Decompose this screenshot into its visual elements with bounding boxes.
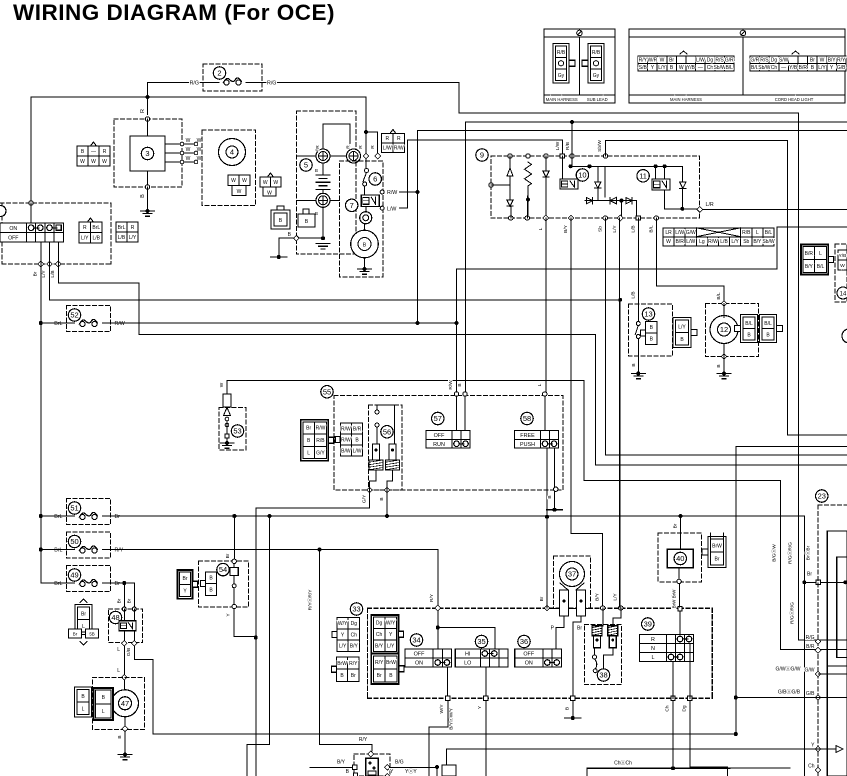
svg-text:39: 39	[644, 620, 652, 629]
svg-text:57: 57	[434, 414, 442, 423]
svg-text:W: W	[666, 239, 671, 245]
svg-text:6: 6	[373, 175, 377, 184]
svg-text:L/B: L/B	[631, 291, 637, 298]
svg-text:W: W	[820, 58, 825, 64]
svg-text:Br: Br	[810, 58, 815, 64]
svg-text:G/Y: G/Y	[362, 494, 368, 503]
svg-text:52: 52	[70, 311, 78, 320]
svg-text:Dg: Dg	[351, 621, 358, 627]
svg-text:B/L: B/L	[745, 321, 753, 327]
svg-text:W: W	[102, 159, 107, 165]
svg-text:L/B: L/B	[720, 239, 728, 245]
svg-text:W/Y: W/Y	[338, 621, 348, 627]
svg-text:ON: ON	[415, 661, 423, 667]
svg-text:PUSH: PUSH	[520, 442, 535, 448]
svg-text:MAIN HARNESS: MAIN HARNESS	[670, 97, 702, 102]
svg-text:B: B	[117, 735, 123, 738]
svg-text:R: R	[103, 149, 107, 155]
svg-text:L/B: L/B	[50, 270, 56, 277]
svg-text:L/Y: L/Y	[818, 65, 826, 71]
svg-text:56: 56	[383, 427, 391, 436]
svg-text:B: B	[305, 219, 309, 225]
svg-text:10: 10	[578, 171, 586, 180]
svg-text:B/YⓧW/Y: B/YⓧW/Y	[448, 707, 455, 729]
svg-text:R/W: R/W	[115, 321, 125, 327]
svg-text:L/W: L/W	[696, 58, 705, 64]
svg-text:50: 50	[70, 537, 78, 546]
svg-text:L/W: L/W	[353, 448, 362, 454]
svg-text:W: W	[186, 138, 191, 144]
svg-text:ON: ON	[9, 226, 17, 232]
svg-text:YⓧY: YⓧY	[405, 768, 417, 775]
svg-text:HI: HI	[465, 652, 470, 658]
svg-text:L/Y: L/Y	[731, 239, 739, 245]
svg-text:L/Y: L/Y	[678, 324, 686, 330]
svg-text:36: 36	[520, 637, 528, 646]
svg-text:Ch: Ch	[771, 65, 778, 71]
svg-text:Br: Br	[669, 58, 674, 64]
svg-text:SUB LEAD: SUB LEAD	[587, 97, 608, 102]
svg-text:B/W: B/W	[341, 448, 351, 454]
svg-text:R: R	[83, 225, 87, 231]
svg-text:Dg: Dg	[771, 58, 778, 64]
svg-text:B/Y: B/Y	[350, 644, 359, 650]
svg-text:BrL: BrL	[92, 225, 100, 231]
svg-text:B/Y: B/Y	[375, 644, 384, 650]
svg-text:W: W	[242, 178, 247, 184]
svg-text:Ch: Ch	[376, 632, 383, 638]
svg-text:Sb/W: Sb/W	[758, 65, 771, 71]
svg-text:R/W: R/W	[387, 190, 397, 196]
svg-text:Sb/W: Sb/W	[762, 239, 775, 245]
svg-text:Br: Br	[577, 626, 582, 632]
svg-text:W/R: W/R	[648, 58, 658, 64]
svg-text:L: L	[652, 655, 655, 661]
svg-text:Br: Br	[183, 576, 188, 582]
svg-text:13: 13	[644, 310, 652, 319]
svg-text:R/GⓧR/G: R/GⓧR/G	[787, 542, 794, 564]
svg-text:R/B: R/B	[592, 50, 601, 56]
svg-text:L: L	[117, 647, 120, 653]
svg-text:R: R	[358, 145, 364, 149]
svg-text:B/L: B/L	[648, 225, 654, 233]
svg-text:S/W: S/W	[779, 58, 789, 64]
svg-text:R: R	[140, 109, 146, 113]
svg-text:G/B: G/B	[837, 65, 846, 71]
svg-text:L/W: L/W	[383, 146, 392, 152]
svg-text:Br: Br	[117, 598, 123, 603]
svg-text:G/B: G/B	[126, 648, 132, 656]
svg-text:Sb: Sb	[597, 226, 603, 232]
svg-text:Gy: Gy	[558, 73, 565, 79]
svg-text:R: R	[397, 136, 401, 142]
svg-text:54: 54	[219, 565, 227, 574]
svg-text:W: W	[186, 156, 191, 162]
svg-text:L: L	[82, 706, 85, 712]
svg-text:Sb: Sb	[743, 239, 749, 245]
svg-text:L: L	[117, 668, 120, 674]
svg-text:LR: LR	[665, 230, 672, 236]
svg-text:R/G: R/G	[806, 635, 815, 641]
svg-text:Y/B: Y/B	[789, 65, 798, 71]
svg-text:BrL: BrL	[54, 581, 62, 587]
svg-text:L/Y: L/Y	[612, 225, 618, 233]
svg-text:B/G: B/G	[395, 760, 404, 766]
svg-text:14: 14	[840, 292, 847, 298]
svg-text:R/Y: R/Y	[639, 58, 648, 64]
svg-text:B/R: B/R	[799, 65, 808, 71]
svg-text:L: L	[538, 227, 544, 230]
svg-text:L: L	[307, 450, 310, 456]
svg-text:W: W	[267, 191, 272, 197]
svg-text:W: W	[263, 180, 268, 186]
svg-text:R/S: R/S	[760, 58, 769, 64]
svg-text:B/R: B/R	[675, 239, 684, 245]
svg-text:4: 4	[230, 148, 234, 157]
svg-text:B: B	[279, 218, 283, 224]
svg-text:WIRING DIAGRAM (For OCE): WIRING DIAGRAM (For OCE)	[13, 0, 335, 25]
svg-text:R/Y: R/Y	[429, 593, 435, 602]
svg-text:B/R: B/R	[353, 426, 362, 432]
svg-text:Y/B: Y/B	[838, 253, 847, 259]
svg-text:B/Y: B/Y	[805, 264, 814, 270]
svg-text:B/Y: B/Y	[828, 58, 837, 64]
svg-text:BrW BrW: BrW BrW	[672, 589, 677, 608]
svg-text:33: 33	[352, 605, 360, 614]
svg-text:Br: Br	[715, 557, 720, 563]
svg-text:Br: Br	[115, 514, 121, 520]
svg-text:W/Y: W/Y	[386, 621, 396, 627]
svg-text:L/B: L/B	[92, 236, 100, 242]
svg-text:BrW: BrW	[386, 660, 396, 666]
svg-text:Br: Br	[73, 632, 78, 637]
svg-text:G/W: G/W	[805, 668, 815, 674]
svg-text:R/Y: R/Y	[359, 737, 368, 743]
svg-text:G/WⓧG/W: G/WⓧG/W	[776, 665, 801, 672]
svg-text:Dg: Dg	[682, 705, 688, 711]
svg-text:RUN: RUN	[433, 442, 445, 448]
svg-text:Sb/W: Sb/W	[597, 140, 603, 152]
svg-text:2: 2	[217, 69, 221, 78]
svg-text:BrL: BrL	[118, 225, 126, 231]
svg-text:5B: 5B	[89, 632, 94, 637]
svg-text:49: 49	[70, 571, 78, 580]
svg-text:B: B	[631, 363, 637, 366]
svg-text:23: 23	[818, 492, 826, 501]
svg-text:R/B: R/B	[565, 142, 571, 150]
svg-text:R/Y: R/Y	[349, 661, 358, 667]
svg-text:W: W	[186, 147, 191, 153]
svg-text:BrW: BrW	[337, 661, 347, 667]
svg-text:S/B: S/B	[639, 65, 648, 71]
svg-text:Sb/W: Sb/W	[713, 65, 726, 71]
svg-text:R/Y: R/Y	[375, 660, 384, 666]
svg-text:L: L	[756, 230, 759, 236]
svg-text:BrW: BrW	[712, 544, 722, 550]
svg-text:51: 51	[70, 504, 78, 513]
svg-text:11: 11	[639, 171, 647, 180]
svg-text:BrⓧBr: BrⓧBr	[805, 545, 812, 560]
svg-text:L/Y: L/Y	[613, 593, 619, 601]
svg-text:Br: Br	[127, 598, 133, 603]
svg-text:W/Y: W/Y	[439, 704, 445, 714]
svg-text:48: 48	[111, 613, 119, 622]
svg-text:CORD HEAD LIGHT: CORD HEAD LIGHT	[775, 97, 814, 102]
svg-text:W: W	[80, 159, 85, 165]
svg-text:Dg: Dg	[376, 621, 383, 627]
svg-text:Br: Br	[351, 673, 356, 679]
svg-text:FREE: FREE	[520, 433, 535, 439]
svg-text:B: B	[547, 495, 553, 498]
svg-text:35: 35	[477, 637, 485, 646]
svg-text:L/Y: L/Y	[129, 235, 137, 241]
svg-text:W: W	[679, 65, 684, 71]
svg-text:R/G: R/G	[190, 81, 199, 87]
svg-text:R: R	[651, 637, 655, 643]
svg-text:Br: Br	[673, 523, 679, 528]
svg-text:B/Y: B/Y	[753, 239, 762, 245]
svg-text:3: 3	[145, 149, 149, 158]
svg-text:L/Y: L/Y	[387, 644, 395, 650]
svg-text:37: 37	[568, 570, 576, 579]
svg-text:38: 38	[599, 671, 607, 680]
svg-text:7: 7	[350, 201, 354, 210]
svg-text:W: W	[273, 180, 278, 186]
svg-text:L/W: L/W	[675, 230, 684, 236]
svg-text:R: R	[315, 145, 321, 149]
svg-text:B/GⓧW: B/GⓧW	[771, 544, 778, 562]
svg-text:B/L: B/L	[817, 264, 825, 270]
svg-text:G/BⓧG/B: G/BⓧG/B	[778, 688, 801, 695]
svg-text:R/GⓧR/G: R/GⓧR/G	[789, 602, 796, 624]
svg-text:Br: Br	[225, 553, 231, 558]
svg-text:BrL: BrL	[54, 548, 62, 554]
svg-text:L: L	[102, 709, 105, 715]
svg-text:R/W: R/W	[316, 426, 326, 432]
svg-text:W: W	[660, 58, 665, 64]
svg-text:B/L: B/L	[764, 321, 772, 327]
svg-text:B/L: B/L	[716, 292, 722, 300]
svg-text:R/S: R/S	[715, 58, 724, 64]
svg-text:53: 53	[233, 427, 241, 436]
svg-text:BrL: BrL	[54, 514, 62, 520]
svg-text:Br: Br	[115, 581, 121, 587]
svg-text:L/Y: L/Y	[81, 236, 89, 242]
svg-text:Dg: Dg	[707, 58, 714, 64]
svg-text:B: B	[363, 242, 367, 248]
svg-text:B/Y: B/Y	[595, 592, 601, 601]
svg-text:W: W	[219, 382, 225, 387]
svg-text:OFF: OFF	[414, 652, 425, 658]
svg-text:—: —	[781, 65, 786, 71]
svg-text:R/Y: R/Y	[115, 548, 124, 554]
svg-text:58: 58	[523, 414, 531, 423]
svg-text:L/B: L/B	[630, 225, 636, 232]
svg-text:Lg: Lg	[699, 239, 705, 245]
svg-text:R/B: R/B	[316, 438, 325, 444]
svg-text:OFF: OFF	[8, 235, 18, 241]
svg-text:Ch: Ch	[665, 705, 671, 711]
svg-text:Br: Br	[32, 271, 38, 276]
svg-text:R: R	[385, 136, 389, 142]
svg-text:G/R: G/R	[750, 58, 759, 64]
svg-text:R/Y: R/Y	[837, 58, 846, 64]
svg-text:9: 9	[480, 151, 484, 160]
svg-text:R: R	[370, 145, 376, 149]
svg-text:Br: Br	[807, 572, 812, 578]
svg-text:L: L	[819, 251, 822, 257]
svg-text:R: R	[346, 145, 352, 149]
svg-text:47: 47	[121, 699, 129, 708]
svg-text:OFF: OFF	[523, 652, 534, 658]
svg-text:BrL: BrL	[54, 321, 62, 327]
svg-text:L/R: L/R	[706, 202, 714, 208]
svg-text:—: —	[91, 149, 96, 155]
svg-text:Br: Br	[81, 611, 86, 617]
svg-text:N: N	[651, 646, 655, 652]
svg-text:B/L: B/L	[725, 65, 733, 71]
svg-text:MAIN HARNESS: MAIN HARNESS	[546, 97, 578, 102]
svg-text:L/W: L/W	[686, 239, 695, 245]
svg-text:B/L: B/L	[765, 230, 773, 236]
svg-text:W: W	[231, 178, 236, 184]
svg-text:L: L	[82, 624, 85, 630]
svg-text:Y/B: Y/B	[687, 65, 696, 71]
svg-text:OFF: OFF	[434, 433, 445, 439]
svg-text:34: 34	[412, 636, 420, 645]
svg-text:L/B: L/B	[118, 235, 126, 241]
svg-text:Br: Br	[539, 596, 545, 601]
svg-text:B/Y: B/Y	[337, 760, 346, 766]
svg-text:R/YⓧR/Y: R/YⓧR/Y	[307, 589, 314, 611]
svg-text:R/W: R/W	[341, 426, 351, 432]
svg-text:G/W: G/W	[686, 230, 696, 236]
svg-text:R/B: R/B	[742, 230, 751, 236]
svg-text:55: 55	[323, 387, 331, 396]
svg-text:L/W: L/W	[555, 141, 561, 150]
svg-text:B/Y: B/Y	[563, 224, 569, 233]
svg-text:L/Y: L/Y	[658, 65, 666, 71]
svg-text:R/B: R/B	[557, 50, 566, 56]
svg-text:R/G: R/G	[267, 81, 276, 87]
svg-text:R/W: R/W	[341, 437, 351, 443]
svg-text:B: B	[716, 364, 722, 367]
svg-text:L: L	[537, 383, 543, 386]
svg-text:Ch: Ch	[351, 632, 358, 638]
svg-text:R/W: R/W	[708, 239, 718, 245]
svg-text:B/R: B/R	[805, 251, 814, 257]
svg-text:L/Y: L/Y	[41, 270, 47, 278]
svg-text:Gy: Gy	[593, 73, 600, 79]
svg-text:B/R: B/R	[806, 644, 815, 650]
svg-text:R: R	[131, 225, 135, 231]
svg-text:B: B	[379, 497, 385, 500]
svg-text:B: B	[565, 707, 571, 710]
svg-text:—: —	[698, 65, 703, 71]
svg-text:LO: LO	[464, 661, 471, 667]
svg-text:W: W	[91, 159, 96, 165]
svg-text:G/B: G/B	[806, 691, 815, 697]
svg-text:L/Y: L/Y	[339, 644, 347, 650]
svg-text:ON: ON	[525, 661, 533, 667]
svg-text:G/Y: G/Y	[316, 450, 325, 456]
svg-text:B: B	[140, 194, 146, 198]
svg-text:ChⓧCh: ChⓧCh	[614, 760, 632, 767]
svg-text:L/W: L/W	[387, 207, 396, 213]
svg-text:B: B	[457, 383, 463, 386]
svg-text:12: 12	[720, 325, 728, 334]
svg-text:Br: Br	[377, 673, 382, 679]
svg-text:G/R: G/R	[725, 58, 734, 64]
svg-text:R/W: R/W	[448, 380, 454, 390]
svg-text:Ch: Ch	[707, 65, 714, 71]
svg-text:B: B	[315, 168, 318, 173]
svg-text:W: W	[840, 263, 845, 269]
svg-text:R/W: R/W	[394, 146, 404, 152]
svg-text:W: W	[237, 189, 242, 195]
svg-text:Ch: Ch	[808, 764, 815, 770]
svg-text:5: 5	[304, 161, 308, 170]
svg-text:Br: Br	[306, 426, 311, 432]
svg-text:40: 40	[676, 554, 684, 563]
